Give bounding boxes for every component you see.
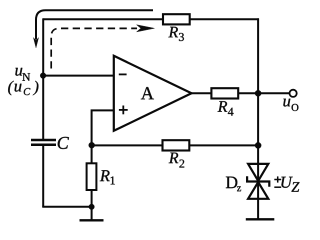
annotation solid feedback arrow xyxy=(33,10,153,48)
wire R4 to output terminal xyxy=(238,92,289,94)
resistor R4 xyxy=(211,88,238,98)
op-amp A xyxy=(114,56,192,131)
wire R2 to right bus xyxy=(189,144,258,146)
zener diode Dz bottom triangle xyxy=(248,182,268,199)
resistor R2 xyxy=(163,140,190,150)
wire junction up and to non-inverting input xyxy=(92,110,114,145)
wire junction to R2 xyxy=(92,144,163,146)
resistor R1 xyxy=(87,163,97,190)
wire left vertical from top to node xyxy=(42,18,44,75)
label C xyxy=(58,137,69,149)
capacitor C xyxy=(31,140,56,145)
resistor R3 xyxy=(163,14,190,24)
wire bottom rail xyxy=(42,206,91,208)
label plus-minus UZ xyxy=(274,179,281,181)
node R2 bus junction dot xyxy=(255,142,261,148)
wire right vertical bus xyxy=(257,18,259,219)
wire top feedback left segment xyxy=(43,18,163,20)
node R1 junction dot xyxy=(89,142,95,148)
label R3 xyxy=(168,27,178,38)
zener diode Dz bar with hooks xyxy=(247,176,269,187)
label A xyxy=(141,87,154,99)
op-amp plus sign xyxy=(119,106,128,115)
annotation dashed arrow xyxy=(51,25,154,69)
label R2 xyxy=(169,153,179,164)
op-amp minus sign xyxy=(119,73,127,75)
wire node to inverting input xyxy=(43,75,114,77)
label Dz xyxy=(226,177,237,189)
wire R1 top to junction xyxy=(91,145,93,163)
node R4 bus junction dot xyxy=(255,90,261,96)
label R4 xyxy=(218,101,228,112)
label uO xyxy=(283,99,290,107)
zener diode Dz top triangle xyxy=(248,164,268,181)
label R1 xyxy=(100,170,110,181)
ground left xyxy=(80,207,104,221)
label uN xyxy=(15,68,22,76)
wire op-amp output xyxy=(192,92,212,94)
output terminal circle xyxy=(290,90,297,97)
wire capacitor to bottom rail xyxy=(42,146,44,207)
label (uC) xyxy=(8,81,14,96)
wire node down to capacitor xyxy=(42,76,44,139)
wire top feedback right segment xyxy=(190,18,259,20)
wire R1 bottom xyxy=(91,190,93,207)
ground right xyxy=(246,218,274,220)
node bottom junction dot xyxy=(89,204,95,210)
node uN junction dot xyxy=(40,73,46,79)
